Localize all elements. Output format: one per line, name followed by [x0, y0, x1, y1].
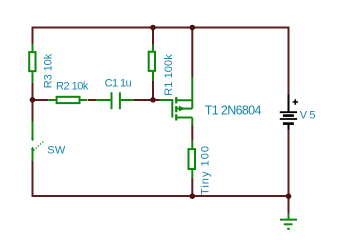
resistor R3	[29, 44, 35, 83]
node junction dot top R1	[150, 25, 156, 31]
node junction dot R3/R2	[30, 97, 36, 103]
svg-text:T1 2N6804: T1 2N6804	[205, 104, 262, 118]
wire battery to ground junction	[288, 130, 290, 197]
ground	[280, 213, 297, 229]
transistor T1 gate bar	[171, 99, 173, 118]
transistor T1 channel pad middle	[175, 106, 177, 112]
resistor R2	[48, 97, 87, 103]
wire ground stub	[288, 196, 290, 213]
svg-text:R3 10k: R3 10k	[42, 53, 54, 88]
svg-text:R2 10k: R2 10k	[56, 81, 89, 93]
svg-text:C1 1u: C1 1u	[105, 77, 132, 89]
battery V plate short 2	[283, 122, 294, 125]
wire tiny resistor bottom stub	[191, 178, 193, 196]
node junction dot top drain	[190, 25, 196, 31]
wire tiny resistor top stub	[191, 126, 193, 141]
transistor T1 channel pad top	[175, 97, 177, 103]
resistor R1	[149, 45, 155, 82]
switch SW top arrow	[31, 139, 34, 142]
node junction dot bottom tiny	[190, 193, 196, 199]
transistor T1 gate lead	[160, 99, 173, 101]
transistor T1 channel pad bottom	[175, 114, 177, 120]
node junction dot mid R1	[150, 97, 156, 103]
switch SW blade	[34, 140, 45, 150]
transistor T1 body line with arrow	[177, 108, 192, 110]
wire mid bus segment 3	[133, 99, 159, 101]
wire left vertical R3 to SW	[32, 83, 34, 122]
wire SW bottom and bottom bus	[33, 161, 289, 196]
switch SW bottom arrow	[31, 147, 34, 150]
battery V plate long 1	[280, 111, 297, 113]
transistor T1 drain line	[177, 77, 192, 109]
battery V plate short 1	[283, 114, 294, 117]
battery V plate long 2	[280, 118, 297, 120]
transistor T1 source line	[177, 118, 192, 126]
svg-text:R1 100k: R1 100k	[163, 54, 175, 96]
switch SW	[32, 122, 34, 162]
resistor Tiny	[189, 141, 196, 178]
wire mid bus segment 2	[88, 99, 96, 101]
svg-text:V 5: V 5	[300, 110, 316, 122]
wire top bus with left riser and right drop	[33, 28, 289, 95]
svg-text:Tiny 100: Tiny 100	[200, 146, 212, 195]
capacitor C1	[96, 92, 133, 109]
svg-text:SW: SW	[47, 144, 66, 156]
battery plus sign	[293, 99, 298, 104]
wire drain stub	[191, 27, 193, 78]
battery V bottom lead	[288, 125, 290, 130]
wire R1 top stub	[152, 27, 154, 46]
wire mid bus segment 1	[32, 99, 49, 101]
node junction dot bottom battery	[286, 193, 292, 199]
battery V top lead	[288, 95, 290, 112]
wire R1 bottom stub	[152, 81, 154, 100]
